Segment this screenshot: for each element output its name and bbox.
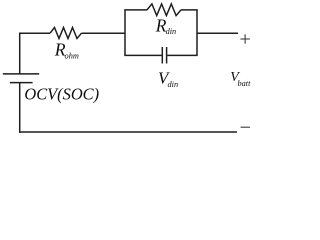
resistor R_din bbox=[147, 4, 181, 16]
wire RC top branch left bbox=[124, 9, 147, 11]
RC box right vertical bbox=[196, 10, 198, 56]
wire RC bottom branch right bbox=[167, 54, 197, 56]
wire output top bbox=[197, 32, 238, 34]
plus terminal bbox=[240, 38, 249, 40]
wire RC bottom branch left bbox=[124, 54, 161, 56]
capacitor C_din right plate bbox=[166, 47, 168, 64]
resistor R_ohm bbox=[50, 28, 82, 39]
wire top rail left bbox=[19, 32, 50, 34]
RC box left vertical bbox=[124, 10, 126, 56]
minus terminal bbox=[241, 126, 250, 128]
svg-text:din: din bbox=[166, 27, 177, 36]
battery cell OCV top plate (long) bbox=[3, 73, 39, 75]
svg-text:din: din bbox=[168, 80, 179, 89]
battery cell OCV bottom plate (short) bbox=[10, 82, 33, 84]
wire left vertical bottom bbox=[19, 83, 21, 133]
svg-text:OCV(SOC): OCV(SOC) bbox=[24, 85, 99, 104]
svg-text:batt: batt bbox=[238, 79, 252, 88]
wire bottom rail bbox=[19, 131, 237, 133]
wire RC top branch right bbox=[181, 9, 198, 11]
svg-text:ohm: ohm bbox=[65, 52, 79, 61]
wire left vertical (battery + to top rail) bbox=[19, 33, 21, 74]
wire mid rail bbox=[82, 32, 126, 34]
capacitor C_din left plate bbox=[161, 47, 163, 64]
